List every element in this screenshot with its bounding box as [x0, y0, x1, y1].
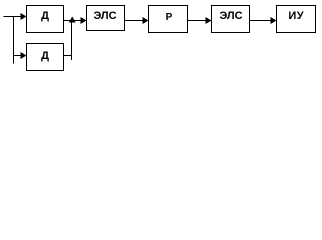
svg-text:ЭЛС: ЭЛС [219, 10, 242, 22]
svg-text:Р: Р [166, 12, 173, 23]
svg-text:ИУ: ИУ [288, 10, 304, 22]
svg-text:Д: Д [41, 50, 49, 62]
svg-text:Д: Д [41, 10, 49, 22]
svg-text:ЭЛС: ЭЛС [93, 10, 116, 22]
